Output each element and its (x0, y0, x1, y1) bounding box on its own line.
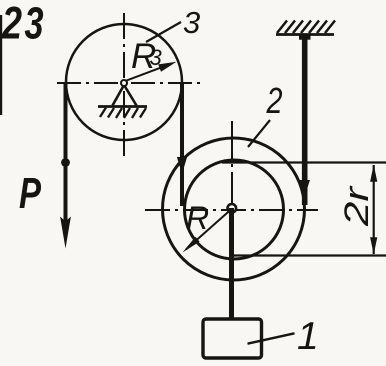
svg-text:3: 3 (183, 5, 200, 40)
dimension line 2r (373, 165, 375, 254)
bottom extension line for 2r (233, 254, 386, 256)
support hatching (100, 108, 146, 119)
pin of pulley 3 (121, 80, 127, 86)
pulley 3 vertical centerline (123, 13, 125, 158)
pulley 2 horizontal centerline (145, 209, 318, 211)
svg-text:2: 2 (266, 80, 283, 121)
ceiling line (276, 33, 334, 36)
ceiling hatching (277, 21, 335, 34)
pulley 2 outer circle (163, 138, 305, 280)
support triangle legs under pin (113, 85, 137, 106)
rope hook bar at ceiling (299, 34, 311, 39)
svg-text:3: 3 (150, 45, 163, 70)
bottom rope to block (229, 208, 234, 320)
leader line of label 1 (248, 333, 295, 343)
leader line of label 2 (248, 120, 270, 147)
small arrowhead on right rope (300, 180, 310, 197)
pulley 3 horizontal centerline (57, 82, 200, 84)
pulley 2 vertical centerline (231, 121, 233, 204)
svg-text:1: 1 (297, 315, 319, 358)
middle rope between pulleys (180, 82, 184, 206)
svg-text:R: R (186, 200, 209, 236)
left rope from pulley 3 (64, 82, 68, 222)
dot on rope (61, 158, 70, 167)
left page-edge line (0, 15, 2, 115)
top extension line for 2r (222, 161, 386, 163)
small arrowhead on middle rope (177, 157, 187, 174)
pin of pulley 2 (228, 204, 237, 213)
leader line of label 3 (146, 22, 181, 42)
force arrowhead P (60, 217, 71, 249)
support ground line (98, 105, 147, 108)
svg-text:P: P (19, 169, 41, 218)
right rope to ceiling (302, 34, 308, 205)
pulley 3 circle (66, 24, 182, 140)
svg-text:3: 3 (25, 0, 44, 49)
svg-text:2r: 2r (338, 185, 376, 227)
block 1 (203, 319, 262, 358)
radius arrow R3 (127, 66, 166, 80)
radius arrow R of pulley 2 (186, 210, 231, 250)
pulley 2 inner circle (185, 160, 284, 259)
svg-text:2: 2 (1, 0, 22, 49)
